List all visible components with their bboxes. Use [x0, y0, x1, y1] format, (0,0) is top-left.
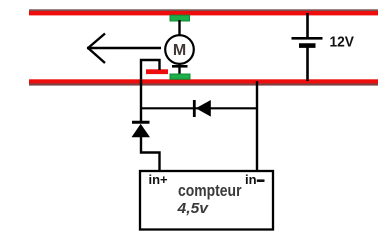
wire bottom rail to counter in-	[256, 81, 258, 171]
diode D1 (pointing up)	[132, 124, 151, 138]
bottom brush contact (green) on motor	[170, 74, 190, 79]
rotation arrow	[87, 47, 161, 49]
svg-text:compteur: compteur	[178, 181, 242, 200]
counter U1 box	[140, 171, 273, 230]
top supply rail (red)	[29, 9, 378, 11]
svg-text:M: M	[173, 42, 186, 59]
motor M1	[165, 35, 194, 64]
wire motor top terminal	[178, 20, 180, 35]
diode D2 (pointing left)	[196, 100, 211, 117]
brush tap (red) left of motor	[146, 69, 168, 74]
battery B1 negative plate	[299, 43, 316, 48]
battery B1 positive plate	[292, 37, 323, 40]
svg-text:4,5v: 4,5v	[176, 200, 209, 217]
diode D1 cathode bar	[132, 121, 150, 124]
svg-text:12V: 12V	[330, 34, 355, 51]
motor bottom terminal bar	[172, 65, 188, 68]
wire diode branch horizontal	[141, 107, 257, 109]
diode D2 cathode bar	[193, 100, 196, 117]
wire D1 anode to counter in+	[141, 136, 160, 171]
svg-text:in+: in+	[149, 172, 169, 187]
battery B1 wire to bottom rail	[306, 48, 309, 82]
wire motor bottom terminal	[178, 64, 180, 75]
top brush contact (green) on motor	[170, 15, 190, 21]
svg-text:in: in	[245, 172, 257, 187]
bottom supply rail (red)	[29, 79, 378, 84]
wire from brush tap to node A	[141, 60, 160, 121]
battery B1 wire to top rail	[306, 13, 309, 38]
